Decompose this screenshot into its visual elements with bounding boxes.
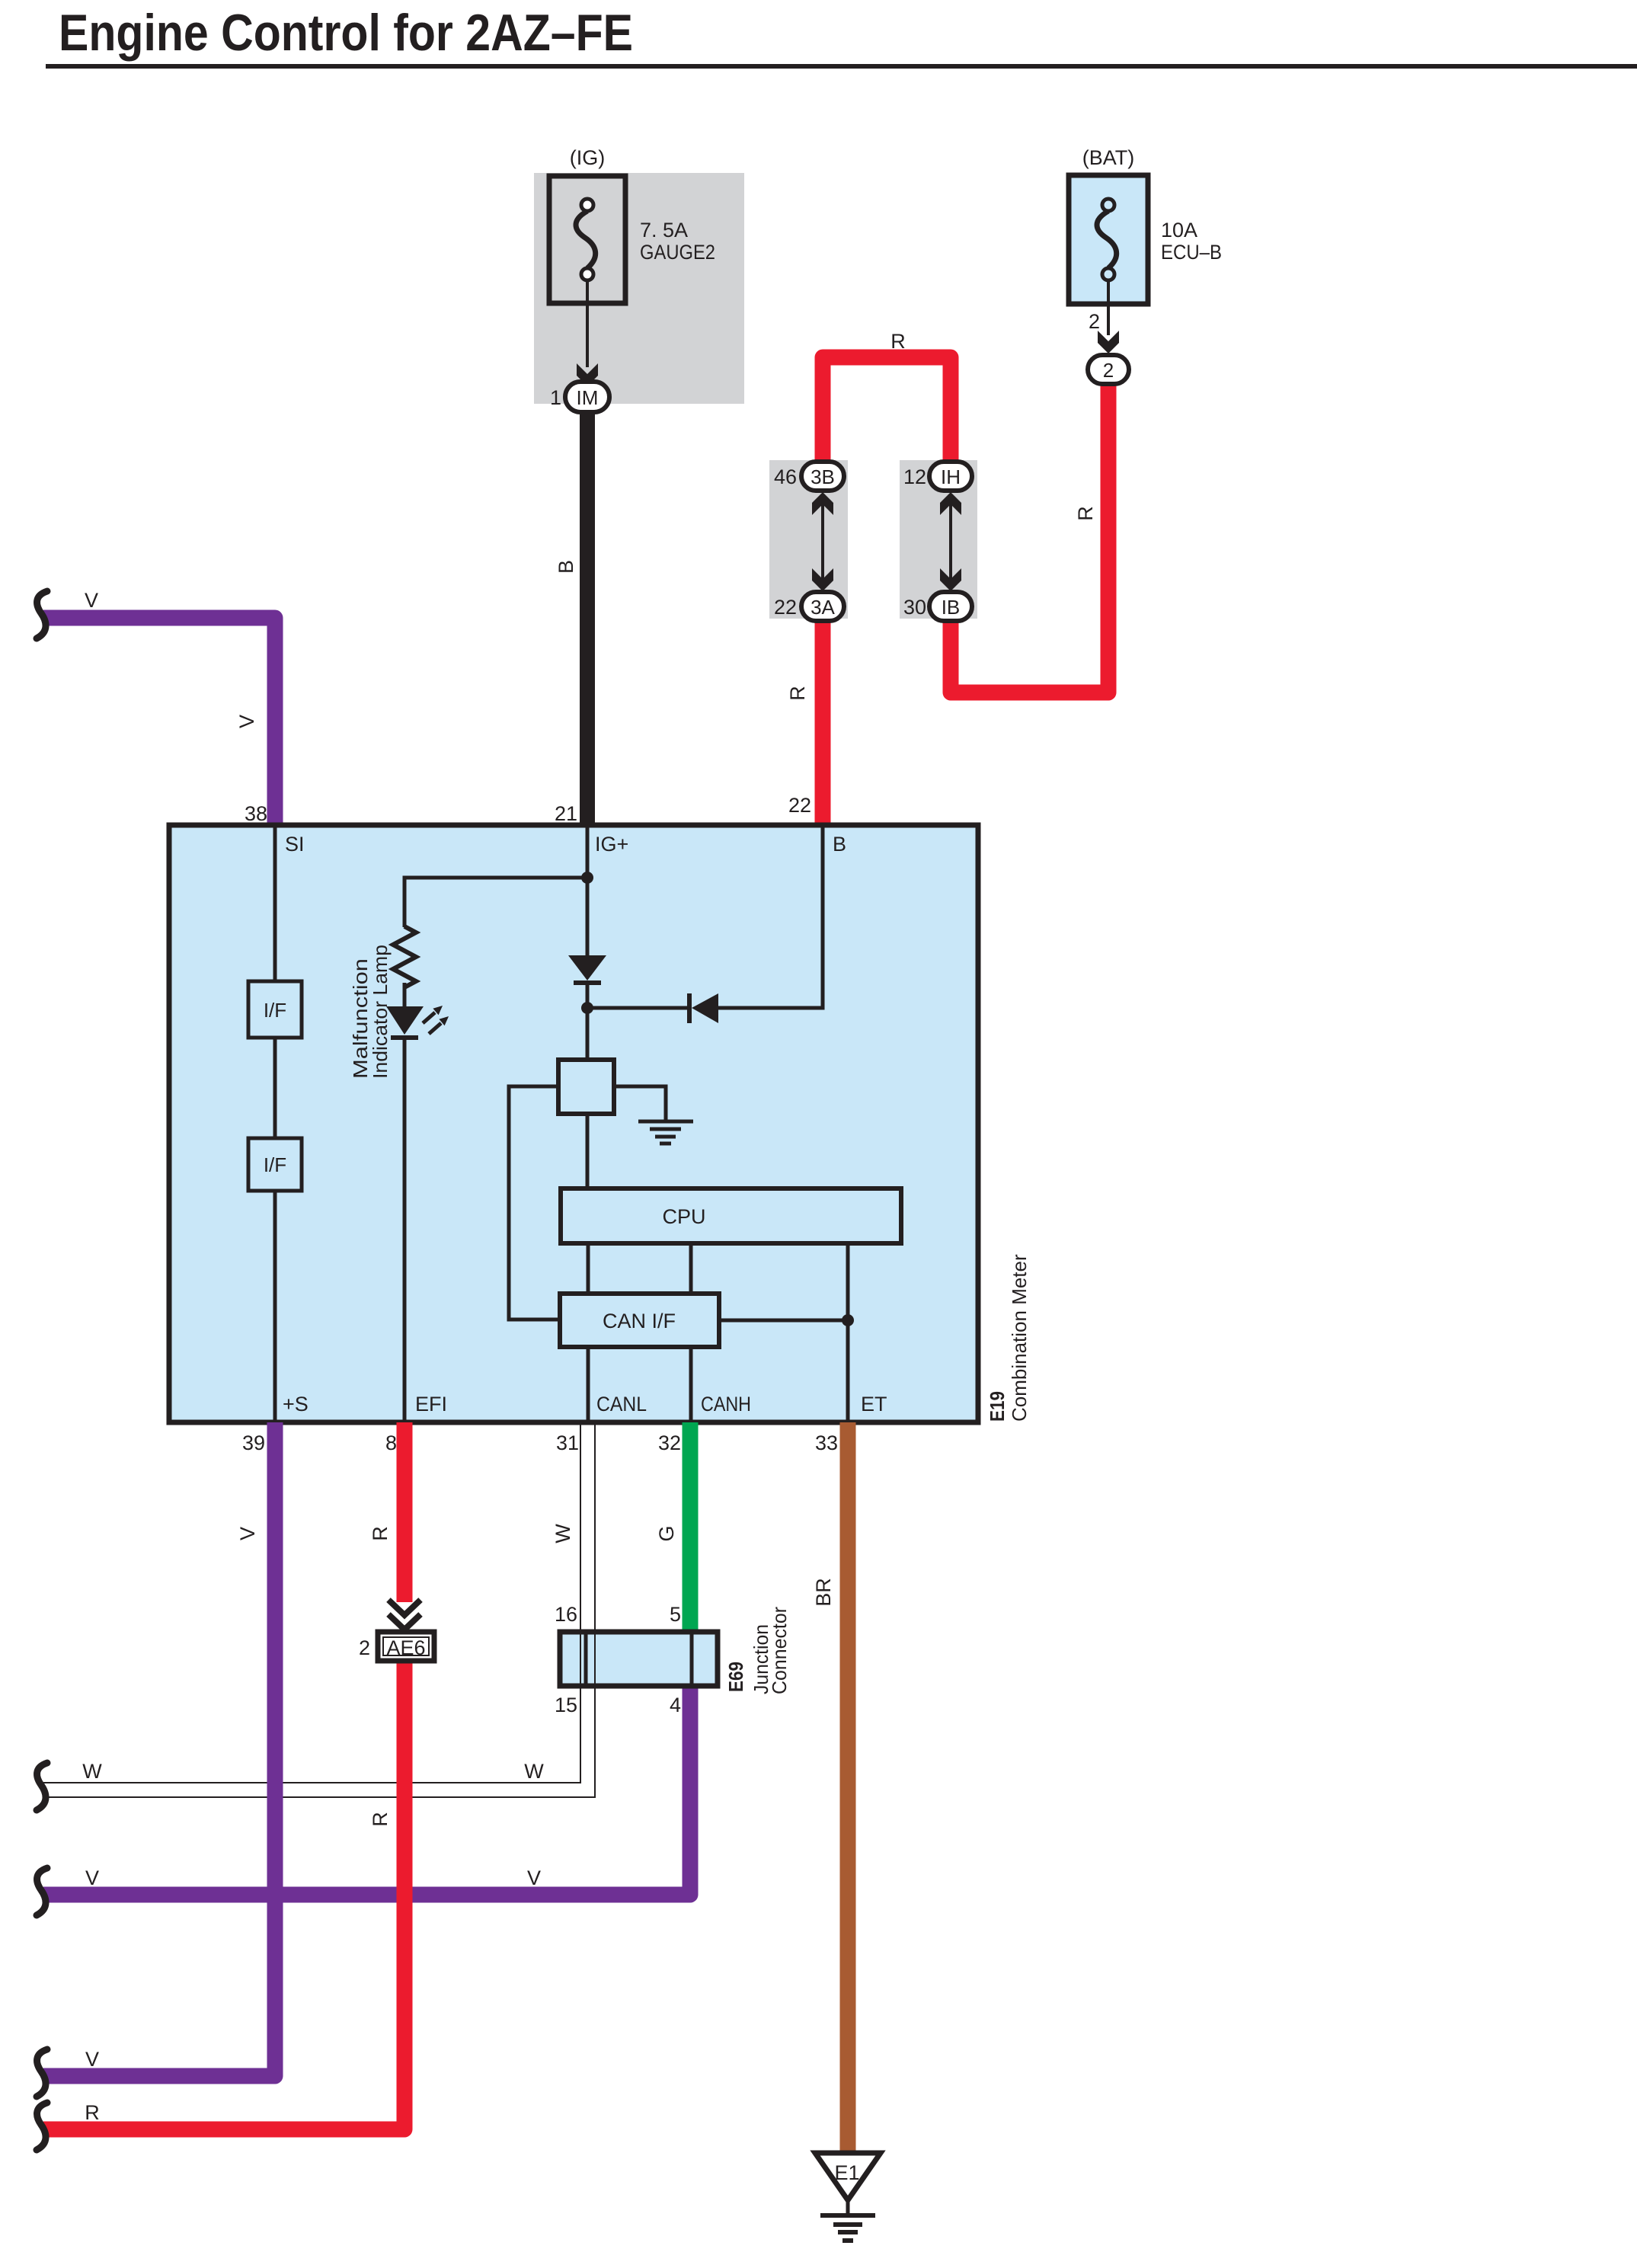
svg-text:R: R [369, 1812, 392, 1827]
svg-text:E19: E19 [986, 1391, 1009, 1422]
svg-text:R: R [786, 686, 809, 701]
svg-text:E69: E69 [724, 1662, 747, 1692]
svg-text:W: W [552, 1524, 574, 1543]
diode D1 on IG+ line [568, 955, 606, 980]
arrow into IM [577, 363, 598, 386]
svg-text:31: 31 [556, 1431, 579, 1454]
svg-text:CPU: CPU [662, 1205, 705, 1228]
LED light arrows [423, 1006, 449, 1034]
wire fuse to connector [586, 280, 589, 367]
svg-text:I/F: I/F [264, 1153, 286, 1176]
internal: B line from pin 22 [718, 827, 823, 1008]
I/F box 1 [248, 981, 302, 1038]
wire transistor right to ground [614, 1086, 666, 1120]
svg-text:V: V [85, 2048, 99, 2071]
svg-text:CANH: CANH [701, 1393, 751, 1416]
svg-text:R: R [890, 330, 906, 353]
svg-text:SI: SI [285, 833, 305, 856]
svg-text:1: 1 [550, 386, 561, 409]
break symbol R [37, 2103, 47, 2150]
wire BR brown pin 33 to E1 [840, 1422, 856, 2154]
svg-text:8: 8 [385, 1431, 397, 1454]
svg-text:IH: IH [941, 465, 961, 488]
wire R red pin 8 to AE6 [397, 1422, 413, 1602]
resistor (MIL) [393, 926, 416, 987]
svg-text:I/F: I/F [264, 999, 286, 1022]
svg-text:V: V [236, 1527, 259, 1540]
svg-text:Combination Meter: Combination Meter [1008, 1254, 1031, 1422]
I/F box 2 [248, 1138, 302, 1191]
wire transistor to CPU [586, 1114, 590, 1188]
E69 junction connector fill [560, 1632, 718, 1686]
svg-text:AE6: AE6 [386, 1636, 425, 1659]
svg-text:2: 2 [1089, 310, 1100, 333]
svg-text:GAUGE2: GAUGE2 [640, 241, 715, 264]
svg-text:3B: 3B [811, 465, 835, 488]
svg-text:7. 5A: 7. 5A [640, 219, 688, 242]
svg-text:5: 5 [670, 1603, 681, 1626]
svg-text:ECU–B: ECU–B [1161, 241, 1222, 264]
svg-text:15: 15 [555, 1694, 577, 1716]
wire transistor left to CAN I/F [509, 1086, 560, 1320]
connector oval IH [929, 462, 972, 491]
junction block grey IH/IB [900, 460, 977, 619]
svg-text:4: 4 [670, 1694, 681, 1716]
fuse element [576, 211, 596, 268]
svg-text:2: 2 [359, 1636, 370, 1659]
title rule [46, 64, 1637, 69]
svg-text:R: R [1074, 506, 1097, 521]
svg-text:30: 30 [903, 596, 926, 619]
connector oval 3B [801, 462, 844, 491]
break symbol top left [37, 591, 47, 638]
ground symbol (internal) [638, 1121, 693, 1144]
internal: IG+ line [586, 827, 590, 955]
wire W (CANL) pin 31: outline wire [43, 1422, 595, 1797]
svg-text:39: 39 [242, 1431, 265, 1454]
svg-text:22: 22 [788, 794, 811, 817]
wire fuse to connector 2 [1107, 280, 1110, 335]
break symbol V (2nd) [37, 1868, 47, 1915]
wire G green pin 32 to E69 [683, 1422, 699, 1634]
connector oval IB [929, 592, 972, 621]
wire resistor to LED [403, 983, 407, 1007]
svg-text:V: V [235, 715, 258, 728]
svg-text:+S: +S [283, 1393, 309, 1416]
combination meter box E19 [169, 825, 978, 1422]
wire V purple pin 39 down [43, 1422, 275, 2076]
connector oval 3A [801, 592, 844, 621]
svg-text:R: R [85, 2101, 100, 2124]
wire V to pin 38 [43, 618, 275, 827]
svg-text:IG+: IG+ [595, 833, 628, 856]
connector oval 1 IM [565, 382, 609, 412]
diode D2 pointing left [692, 993, 718, 1023]
fuse 7.5A GAUGE2 body [549, 176, 625, 303]
CPU box [561, 1188, 901, 1243]
svg-text:IM: IM [577, 386, 599, 409]
wires CAN I/F to CANL/CANH pins [587, 1347, 590, 1420]
svg-text:B: B [555, 560, 577, 574]
node on ET line [842, 1314, 854, 1326]
svg-text:Engine Control for 2AZ–FE: Engine Control for 2AZ–FE [59, 4, 633, 62]
svg-text:W: W [524, 1760, 544, 1783]
combination meter border [169, 825, 978, 1422]
AE6 arrows [388, 1600, 420, 1630]
svg-text:46: 46 [774, 465, 797, 488]
wire R from oval 2 to IB [951, 377, 1108, 693]
svg-text:R: R [369, 1526, 392, 1541]
wire V purple from E69 pin 4 [43, 1684, 690, 1895]
wire R from 3A to pin 22 [815, 619, 831, 827]
svg-text:10A: 10A [1161, 219, 1197, 242]
svg-text:(IG): (IG) [570, 146, 606, 169]
wire R top loop 3B to IH [823, 357, 951, 463]
svg-text:G: G [655, 1525, 678, 1541]
break symbol V (3rd) [37, 2049, 47, 2097]
wire CAN I/F to ET line [719, 1319, 848, 1323]
fuse block grey background (IG) [534, 173, 744, 404]
svg-text:V: V [85, 1867, 99, 1889]
internal: SI line [273, 827, 277, 981]
arrow into oval 2 [1098, 331, 1119, 353]
wires CPU to CAN I/F [587, 1243, 590, 1294]
wire node to resistor [404, 878, 587, 927]
E69 junction connector border [560, 1632, 718, 1686]
svg-text:Indicator Lamp: Indicator Lamp [369, 945, 392, 1079]
svg-text:BR: BR [812, 1578, 835, 1607]
break symbol W [37, 1763, 47, 1810]
svg-text:33: 33 [815, 1431, 838, 1454]
svg-text:21: 21 [555, 802, 577, 825]
wire B black from IM to pin 21 [580, 411, 595, 827]
svg-text:CANL: CANL [596, 1393, 647, 1416]
svg-text:2: 2 [1103, 359, 1114, 382]
wire CPU to ET [846, 1243, 850, 1420]
svg-text:3A: 3A [811, 596, 835, 619]
svg-text:32: 32 [658, 1431, 681, 1454]
fuse element [1097, 211, 1117, 268]
junction block grey 3B/3A [769, 460, 848, 619]
svg-text:Connector: Connector [768, 1607, 791, 1694]
svg-text:16: 16 [555, 1603, 577, 1626]
svg-text:V: V [85, 589, 98, 612]
connector oval 2 [1088, 355, 1129, 384]
svg-text:V: V [527, 1867, 541, 1889]
svg-text:IB: IB [942, 596, 961, 619]
svg-text:(BAT): (BAT) [1082, 146, 1135, 169]
transistor box [558, 1060, 614, 1114]
arrow pair IH-IB [949, 499, 952, 583]
svg-text:EFI: EFI [415, 1393, 447, 1416]
CAN I/F box [560, 1294, 719, 1347]
ground E1 [815, 2153, 881, 2200]
svg-text:E1: E1 [834, 2161, 859, 2184]
wire LED down to EFI pin [403, 1036, 407, 1420]
svg-text:38: 38 [245, 802, 267, 825]
wire R red from AE6 down and left [43, 1661, 404, 2129]
node under D1 [581, 1002, 593, 1014]
svg-text:ET: ET [861, 1393, 887, 1416]
svg-text:B: B [833, 833, 846, 856]
svg-text:W: W [82, 1760, 102, 1783]
arrow pair 3B-3A [821, 499, 824, 583]
svg-text:CAN I/F: CAN I/F [603, 1310, 676, 1332]
node on IG+ [581, 872, 593, 884]
svg-text:12: 12 [903, 465, 926, 488]
svg-text:22: 22 [774, 596, 797, 619]
LED (malfunction indicator lamp) [386, 1006, 424, 1035]
AE6 connector box [378, 1632, 434, 1661]
